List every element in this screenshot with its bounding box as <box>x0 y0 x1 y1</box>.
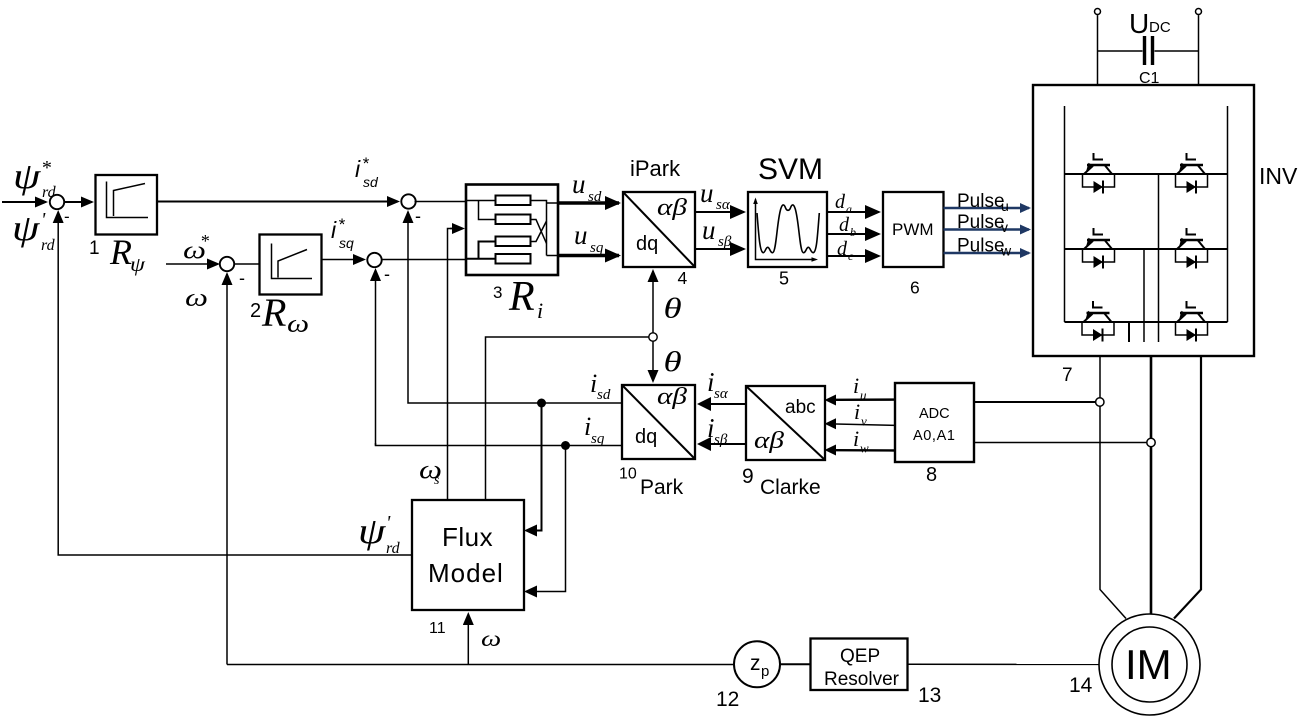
svg-text:z: z <box>750 652 761 675</box>
wire i*sq line <box>322 259 365 261</box>
label i_sq <box>584 412 605 447</box>
svg-text:sq: sq <box>339 235 354 251</box>
node phase v tap <box>1147 438 1155 446</box>
transistor Q6 <box>1176 301 1208 342</box>
wire Pulse_w <box>944 252 1030 254</box>
svg-text:INV: INV <box>1259 163 1298 189</box>
block PWM (6) <box>883 192 944 267</box>
svg-text:5: 5 <box>779 269 789 289</box>
svg-text:Park: Park <box>640 476 684 499</box>
svg-text:Resolver: Resolver <box>824 669 900 690</box>
svg-text:ψ: ψ <box>358 511 386 551</box>
svg-text:1: 1 <box>89 238 100 259</box>
wire phase w below box <box>1174 356 1201 619</box>
wire theta up into iPark <box>652 271 654 333</box>
svg-text:sq: sq <box>591 431 605 447</box>
label i_sbeta <box>707 413 728 448</box>
inverter row2 bar <box>1065 248 1228 250</box>
label omega* <box>183 231 209 265</box>
wire DC left <box>1097 15 1099 85</box>
label omega input <box>481 626 501 651</box>
wire S3 to Ri <box>415 201 467 203</box>
svg-text:i: i <box>537 298 543 323</box>
wire i_sbeta <box>710 443 746 445</box>
svg-text:4: 4 <box>678 268 688 288</box>
summing junction S2 <box>220 257 234 271</box>
motor IM (14) <box>1099 614 1200 715</box>
Ri left bracket bottom <box>466 242 496 259</box>
svg-text:R: R <box>261 290 286 335</box>
svg-text:d: d <box>837 238 848 260</box>
svg-text:b: b <box>850 225 856 239</box>
svg-text:10: 10 <box>619 466 637 483</box>
svg-text:SVM: SVM <box>758 153 823 186</box>
block z_p (12) <box>734 641 780 687</box>
wire omega into flux model <box>467 614 469 665</box>
svg-text:Model: Model <box>428 558 504 588</box>
label R_omega <box>261 290 309 338</box>
wire ADC tap u <box>974 401 1096 403</box>
block ADC (8) <box>895 383 974 462</box>
svg-text:2: 2 <box>250 300 261 322</box>
phase tap row3 <box>1128 322 1130 342</box>
svg-text:u: u <box>572 169 586 199</box>
summing junction S3 <box>401 194 415 208</box>
transistor Q1 <box>1083 153 1115 194</box>
wire i_sq into flux model <box>536 446 566 592</box>
wire QEP to IM <box>908 663 1100 665</box>
Ri left bracket top <box>466 201 496 220</box>
wire phase v below box <box>1150 356 1153 615</box>
wire i_sd feedback <box>408 402 622 404</box>
node i_sq junction <box>561 441 570 450</box>
svg-text:*: * <box>41 157 51 179</box>
node phase u tap <box>1096 398 1104 406</box>
wire i_w <box>836 449 896 452</box>
svg-text:Clarke: Clarke <box>760 476 821 499</box>
svg-text:9: 9 <box>742 465 754 488</box>
svg-text:14: 14 <box>1069 674 1093 697</box>
wire omega_s into Ri <box>448 229 457 500</box>
label i*sd <box>355 154 379 190</box>
DC terminal left <box>1095 9 1101 15</box>
svg-text:i: i <box>853 426 859 451</box>
svg-text:sd: sd <box>588 189 602 205</box>
svg-text:11: 11 <box>429 620 446 637</box>
label U_DC <box>1129 8 1171 39</box>
label R_psi <box>109 232 146 276</box>
label omega feedback <box>185 284 208 312</box>
wire i_sq feedback <box>376 443 623 446</box>
label i_u <box>853 373 867 403</box>
svg-text:u: u <box>574 220 588 250</box>
label theta lower <box>664 347 682 378</box>
label i_sd <box>590 369 611 403</box>
phase tap row1 <box>1158 174 1160 342</box>
inverter left rail <box>1064 106 1066 322</box>
node i_sd junction <box>537 399 546 408</box>
block R_i (3) outer box <box>466 185 558 276</box>
svg-text:θ: θ <box>664 347 682 378</box>
svg-text:i: i <box>355 156 361 182</box>
label d_a <box>835 191 852 216</box>
svg-text:αβ: αβ <box>657 193 688 220</box>
wire phase u below box <box>1100 356 1126 619</box>
label theta upper <box>664 294 682 325</box>
label Pulse_v <box>957 212 1008 235</box>
wire S1 to Rpsi <box>64 201 93 203</box>
svg-text:dq: dq <box>635 426 657 448</box>
svg-text:d: d <box>839 214 850 236</box>
svg-text:iPark: iPark <box>630 156 681 181</box>
svg-text:Flux: Flux <box>442 522 493 552</box>
Ri resistor r1 <box>496 196 531 206</box>
svg-text:': ' <box>41 209 46 231</box>
svg-text:U: U <box>1129 8 1149 39</box>
Ri resistor r3 <box>496 237 531 247</box>
wire i_salpha <box>710 403 746 405</box>
svg-text:d: d <box>835 191 846 213</box>
block INV (7) <box>1033 85 1254 356</box>
svg-text:w: w <box>860 441 869 456</box>
block R_omega (2) <box>260 235 322 295</box>
Ri right vertical <box>531 201 547 256</box>
wire psi*rd input <box>2 201 46 203</box>
block Flux Model (11) <box>412 500 524 610</box>
svg-text:sd: sd <box>597 387 611 403</box>
wire d_c <box>827 255 879 257</box>
wire Pulse_u <box>944 207 1030 209</box>
svg-text:-: - <box>384 264 390 284</box>
wire ADC tap v <box>974 442 1147 444</box>
wire u_salpha <box>695 211 744 213</box>
svg-text:DC: DC <box>1149 19 1171 36</box>
phase tap row2 <box>1143 249 1145 342</box>
svg-text:ω: ω <box>185 284 208 312</box>
svg-text:w: w <box>1000 243 1012 259</box>
node theta <box>649 333 657 341</box>
wire i_v <box>836 424 896 425</box>
svg-text:s: s <box>434 473 440 488</box>
Ri cross wires <box>531 220 547 244</box>
svg-text:Pulse: Pulse <box>957 191 1005 212</box>
SVM waveform <box>757 205 819 253</box>
wire d_b <box>827 233 879 235</box>
svg-text:ω: ω <box>287 311 309 338</box>
summing junction S1 <box>50 195 64 209</box>
svg-text:12: 12 <box>716 688 739 711</box>
svg-text:6: 6 <box>910 278 920 298</box>
label u_salpha <box>700 178 731 213</box>
svg-text:sα: sα <box>716 197 731 213</box>
label d_b <box>839 214 856 239</box>
svg-text:sq: sq <box>590 240 604 256</box>
block Clarke (9) <box>746 386 825 460</box>
label psi'rd <box>12 208 56 254</box>
label u_sq <box>574 220 604 256</box>
wire theta down into Park <box>652 341 654 381</box>
svg-text:-: - <box>239 268 245 288</box>
svg-text:*: * <box>200 231 209 251</box>
label d_c <box>837 238 854 263</box>
svg-text:sβ: sβ <box>718 234 732 250</box>
svg-text:ψ: ψ <box>12 208 40 248</box>
svg-text:-: - <box>415 206 421 226</box>
wire i_sq feedback up into S4 <box>375 270 377 446</box>
svg-text:i: i <box>331 217 337 243</box>
svg-text:c: c <box>848 249 854 263</box>
svg-text:7: 7 <box>1062 365 1073 386</box>
wire u_sbeta <box>695 248 744 250</box>
svg-text:Pulse: Pulse <box>957 236 1005 257</box>
label i_v <box>854 399 867 429</box>
svg-text:': ' <box>386 512 391 534</box>
svg-text:rd: rd <box>41 237 56 254</box>
svg-text:u: u <box>860 388 867 403</box>
Ri resistor r4 <box>496 254 531 264</box>
wire i_u <box>836 398 896 401</box>
wire theta horizontal from flux <box>486 337 650 499</box>
SVM axes <box>756 200 816 260</box>
label i*sq <box>331 215 354 251</box>
wire omega* input <box>166 263 218 265</box>
label u_sbeta <box>702 215 732 250</box>
wire u_sd <box>558 201 619 205</box>
block Park (10) <box>622 382 695 459</box>
Ri output stubs <box>547 203 559 256</box>
transistor Q5 <box>1082 301 1114 342</box>
svg-text:v: v <box>861 414 867 429</box>
svg-text:ADC: ADC <box>919 406 950 422</box>
svg-text:Pulse: Pulse <box>957 212 1005 233</box>
label psi*rd <box>13 156 57 201</box>
label Pulse_w <box>957 236 1012 259</box>
wire bottom feedback <box>227 664 734 666</box>
svg-text:ψ: ψ <box>13 156 41 196</box>
svg-text:sβ: sβ <box>714 432 728 448</box>
wire S2 to Romega <box>234 263 260 265</box>
wire i_sd into flux model <box>536 403 542 531</box>
svg-text:sd: sd <box>363 174 379 190</box>
svg-text:IM: IM <box>1125 641 1172 688</box>
svg-text:sα: sα <box>714 386 729 402</box>
svg-text:i: i <box>854 399 860 424</box>
wire d_a <box>827 211 879 213</box>
capacitor C1 <box>1098 36 1199 65</box>
svg-text:R: R <box>109 232 132 272</box>
svg-text:αβ: αβ <box>657 382 688 409</box>
transistor Q3 <box>1083 228 1115 269</box>
block R_psi (1) <box>96 175 158 235</box>
label R_i <box>508 274 543 323</box>
inverter row3 bar <box>1065 321 1228 323</box>
inverter right rail <box>1227 106 1229 322</box>
svg-text:p: p <box>761 663 769 680</box>
DC terminal right <box>1196 9 1202 15</box>
label Pulse_u <box>957 191 1009 214</box>
wire i*sd line <box>157 201 398 203</box>
label omega_s <box>419 456 442 488</box>
summing junction S4 <box>367 253 381 267</box>
label u_sd <box>572 169 602 205</box>
transistor Q4 <box>1176 228 1208 269</box>
label psi'rd flux output <box>358 511 401 557</box>
wire z_p to QEP <box>780 663 811 665</box>
label i_salpha <box>707 367 729 402</box>
svg-text:dq: dq <box>636 233 658 255</box>
svg-text:θ: θ <box>664 294 682 325</box>
svg-text:-: - <box>64 207 70 226</box>
Ri resistor r2 <box>496 215 531 225</box>
svg-text:v: v <box>1001 219 1008 235</box>
svg-text:ψ: ψ <box>130 253 146 276</box>
svg-text:A0,A1: A0,A1 <box>913 428 956 444</box>
wire Pulse_v <box>944 228 1030 230</box>
svg-text:3: 3 <box>493 283 502 302</box>
svg-text:u: u <box>700 178 714 208</box>
svg-text:abc: abc <box>785 397 816 418</box>
svg-text:8: 8 <box>926 464 937 486</box>
wire DC right <box>1198 15 1200 85</box>
wire S4 to Ri <box>382 259 466 261</box>
label i_w <box>853 426 869 456</box>
block iPark (4) <box>623 192 695 267</box>
svg-text:ω: ω <box>481 626 501 651</box>
wire omega feedback up into S2 <box>226 274 228 665</box>
wire i_sd feedback up into S3 <box>407 212 409 402</box>
svg-text:u: u <box>702 215 716 245</box>
svg-text:i: i <box>853 373 859 398</box>
svg-text:QEP: QEP <box>840 646 880 667</box>
block QEP Resolver (13) <box>811 639 908 691</box>
svg-text:13: 13 <box>918 684 941 707</box>
wire psi'rd feedback <box>58 212 412 555</box>
inverter row1 bar <box>1065 173 1228 175</box>
svg-text:R: R <box>508 274 535 320</box>
wire u_sq <box>558 254 619 258</box>
svg-text:PWM: PWM <box>892 220 934 239</box>
svg-text:αβ: αβ <box>754 426 785 453</box>
transistor Q2 <box>1176 153 1208 194</box>
block SVM (5) <box>748 192 827 267</box>
